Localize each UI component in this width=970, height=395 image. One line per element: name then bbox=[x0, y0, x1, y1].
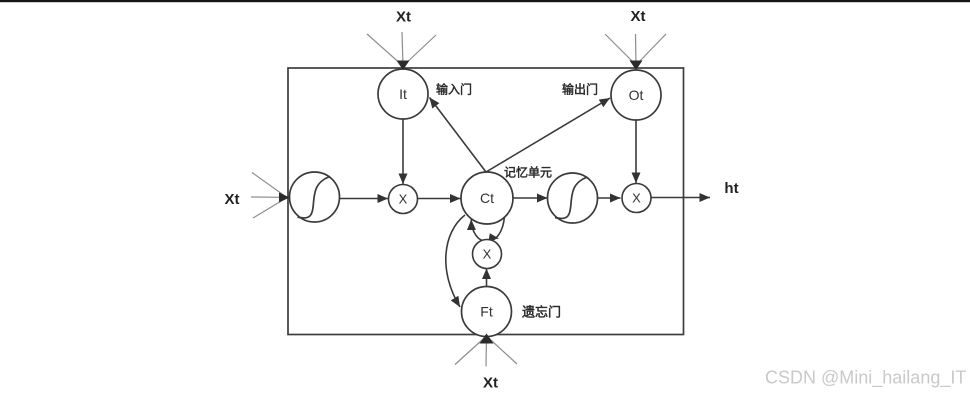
wire: Ot to X2 (vertical arrow) bbox=[635, 121, 637, 184]
node S1: sigmoid circle left bbox=[290, 172, 340, 222]
arrowhead blob at Ft bottom bbox=[480, 334, 494, 344]
svg-text:遗忘门: 遗忘门 bbox=[521, 305, 561, 320]
svg-text:X: X bbox=[632, 191, 641, 206]
wire: S1 to X1 (horizontal arrow) bbox=[339, 198, 388, 200]
svg-text:X: X bbox=[399, 192, 408, 207]
svg-text:Ot: Ot bbox=[629, 87, 644, 103]
wire: It to X1 (vertical arrow) bbox=[402, 120, 404, 185]
svg-text:Xt: Xt bbox=[396, 9, 411, 26]
wire: Ct to Ot (diagonal arrow) bbox=[486, 98, 610, 172]
svg-text:X: X bbox=[483, 247, 492, 262]
svg-text:It: It bbox=[399, 86, 407, 102]
top window border line bbox=[0, 0, 970, 2]
enclosing cell rectangle bbox=[288, 68, 684, 335]
wire: Ft to X3 (vertical arrow) bbox=[486, 269, 488, 288]
node Ft: forget gate circle bbox=[462, 287, 512, 337]
wire: Ct to S2 (horizontal arrow) bbox=[513, 197, 548, 199]
svg-text:Xt: Xt bbox=[631, 8, 646, 25]
wire: Ct to Ft (big left arc arrow) bbox=[446, 215, 465, 307]
svg-text:ht: ht bbox=[724, 180, 738, 197]
wire: Xt fan-in to sigmoid S1 (3 lines) bbox=[251, 173, 287, 219]
node Ot: output gate circle bbox=[611, 70, 661, 120]
svg-text:记忆单元: 记忆单元 bbox=[504, 165, 552, 180]
node S2: sigmoid circle right bbox=[548, 173, 598, 223]
node X1: multiply circle bbox=[389, 185, 418, 214]
arrowhead blob at Ot top bbox=[630, 61, 643, 71]
svg-text:Ct: Ct bbox=[480, 190, 494, 206]
arrowhead blob at S1 left bbox=[279, 193, 290, 203]
svg-text:输出门: 输出门 bbox=[562, 82, 598, 97]
wire: S2 to X2 (horizontal arrow) bbox=[598, 197, 621, 199]
node X3: multiply circle below Ct bbox=[473, 240, 502, 269]
wire: Xt fan-in to Ot (3 lines) bbox=[605, 34, 666, 65]
wire: X3 to Ct (small loop arc arrow) bbox=[471, 216, 504, 242]
node X2: multiply circle right bbox=[622, 184, 651, 213]
arrowhead on loop arc near X3 bbox=[489, 233, 499, 240]
node Ct: memory cell circle bbox=[461, 172, 513, 224]
svg-text:Xt: Xt bbox=[225, 191, 240, 208]
wire: X1 to Ct (horizontal arrow) bbox=[418, 198, 461, 200]
svg-text:输入门: 输入门 bbox=[436, 82, 472, 97]
svg-text:Xt: Xt bbox=[483, 375, 498, 392]
wire: X2 to ht output (horizontal arrow) bbox=[652, 197, 711, 199]
svg-text:Ft: Ft bbox=[480, 304, 493, 320]
arrowhead blob at It top bbox=[397, 61, 410, 71]
wire: Xt fan-in to Ft (3 lines) bbox=[455, 336, 517, 367]
svg-text:CSDN @Mini_hailang_IT: CSDN @Mini_hailang_IT bbox=[765, 368, 966, 389]
wire: Ct to It (diagonal arrow) bbox=[430, 98, 487, 173]
wire: Xt fan-in to It (3 lines) bbox=[367, 32, 436, 66]
node It: input gate circle bbox=[378, 69, 428, 119]
